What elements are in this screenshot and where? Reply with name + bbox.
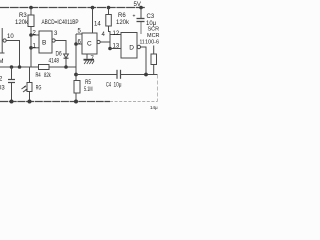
pin 14 label [94, 22, 101, 28]
pin 13 label [113, 43, 120, 49]
label RG [36, 86, 42, 92]
capacitor C3 [137, 8, 145, 35]
wire bottom ground rail [0, 101, 110, 103]
pin 3 label [54, 31, 58, 37]
wire D input tie vertical [109, 35, 111, 49]
wire top +5V rail [0, 7, 145, 9]
wire pin12 stub [110, 34, 121, 36]
svg-text:4148: 4148 [49, 59, 60, 65]
svg-text:5: 5 [78, 28, 82, 34]
node junction on top rail at R6 [107, 6, 111, 10]
svg-text:SCR: SCR [148, 27, 160, 33]
svg-text:4: 4 [102, 32, 106, 38]
capacitor C4 (inline) [117, 70, 121, 79]
svg-text:10μ: 10μ [114, 82, 122, 88]
svg-text:120k: 120k [15, 20, 29, 26]
label R5 5.1M [84, 80, 93, 93]
label D [129, 45, 134, 52]
svg-text:03: 03 [0, 86, 5, 92]
pin 6 stub [76, 43, 82, 45]
svg-text:14μ: 14μ [150, 105, 158, 110]
pin 7 label [91, 56, 95, 62]
photoresistor RG [22, 67, 33, 102]
label R4 82k [36, 73, 52, 79]
svg-text:ABCD=IC4011BP: ABCD=IC4011BP [42, 19, 79, 26]
node junction on top rail at R3 [29, 6, 33, 10]
node junction pin13 [108, 47, 112, 51]
pin 5 stub [76, 33, 82, 35]
diode D6 [64, 54, 69, 67]
wire SCR cathode to ground (faint) [157, 75, 159, 102]
resistor R5 [74, 81, 80, 94]
node junction C1/rail [10, 100, 14, 104]
svg-text:2: 2 [0, 77, 3, 83]
pin 6 label [78, 39, 82, 45]
node junction RG/rail [28, 100, 32, 104]
svg-text:+: + [133, 14, 136, 20]
node junction C1 [10, 65, 14, 69]
svg-text:3: 3 [54, 31, 58, 37]
pin 2 label [33, 31, 37, 37]
svg-text:M: M [0, 59, 4, 65]
wire gate A output to node [6, 41, 19, 68]
wire gate C output to D inputs [100, 41, 110, 43]
node junction D output / wire [144, 73, 148, 77]
svg-text:R6: R6 [118, 13, 126, 19]
node junction gate A output [18, 65, 22, 69]
node junction on top rail at 5V/C3 [139, 6, 143, 10]
svg-text:82k: 82k [44, 73, 51, 79]
pin 11 label [140, 39, 145, 45]
gate C [82, 33, 100, 54]
svg-text:C3: C3 [147, 14, 155, 20]
svg-text:R5: R5 [85, 80, 92, 86]
pin 10 label [7, 34, 14, 40]
resistor R7 (SCR gate resistor) [151, 46, 157, 75]
node junction wire corner [74, 73, 78, 77]
label corner artifact [150, 105, 158, 110]
gate A (cropped at left edge) [0, 28, 6, 53]
svg-text:D6: D6 [56, 51, 63, 57]
label ABCD=IC4011BP [42, 19, 79, 26]
pin 4 label [102, 32, 106, 38]
pin 5 label [78, 28, 82, 34]
node junction pin1 [29, 46, 33, 50]
svg-text:MCR: MCR [147, 33, 160, 39]
svg-text:B: B [42, 39, 46, 46]
svg-text:1: 1 [33, 43, 37, 49]
label C [87, 41, 92, 48]
ground (pin 7) [84, 54, 95, 64]
label SCR MCR100-6 [145, 27, 160, 46]
label M (cropped) [0, 59, 4, 65]
node junction on top rail at pin14 [91, 6, 95, 10]
svg-text:12: 12 [113, 31, 120, 37]
svg-text:RG: RG [36, 86, 42, 92]
wire gate D output down [141, 47, 146, 75]
node junction pin6 [74, 42, 78, 46]
label C3 10u [146, 14, 157, 27]
capacitor C1 [8, 67, 15, 102]
svg-text:10: 10 [7, 34, 14, 40]
resistor R3 [28, 8, 34, 36]
wire pin1 stub [31, 47, 39, 49]
label R3 120k [15, 13, 29, 26]
resistor R4 (inline) [39, 65, 50, 70]
wire pin2 stub [31, 34, 39, 36]
wire gate B output [55, 41, 66, 55]
gate B [39, 31, 55, 53]
svg-text:C: C [87, 41, 92, 48]
label C1 value (cropped) [0, 77, 5, 92]
wire gate C input tie vertical x76 [75, 34, 77, 102]
gate D [121, 33, 141, 59]
svg-text:C4: C4 [106, 82, 111, 88]
svg-text:100-6: 100-6 [145, 40, 159, 46]
label C4 10u [106, 82, 122, 88]
svg-text:R4: R4 [36, 73, 42, 79]
wire node A horizontal y67 [0, 66, 76, 68]
wire R3/gateB-input vertical [30, 35, 32, 67]
svg-text:R3: R3 [19, 13, 27, 19]
label R6 120k [116, 13, 130, 26]
svg-text:14: 14 [94, 22, 101, 28]
svg-text:D: D [129, 45, 134, 52]
wire pin14 power drop [92, 8, 94, 34]
label + of C3 [133, 14, 136, 20]
svg-text:120k: 120k [116, 20, 130, 26]
label B [42, 39, 46, 46]
svg-text:13: 13 [113, 43, 120, 49]
node junction R5/rail [74, 100, 78, 104]
label D6 4148 [49, 51, 63, 64]
svg-text:2: 2 [33, 31, 37, 37]
node junction diode/wire [64, 65, 68, 69]
pin 1 label [33, 43, 37, 49]
wire node B horizontal y74 [76, 74, 117, 76]
wire pin13 stub [110, 48, 121, 50]
svg-text:5.1M: 5.1M [84, 87, 93, 93]
node 5V label [134, 2, 141, 8]
node junction pin2 [29, 33, 33, 37]
pin 12 label [113, 31, 120, 37]
resistor R6 [106, 8, 112, 35]
